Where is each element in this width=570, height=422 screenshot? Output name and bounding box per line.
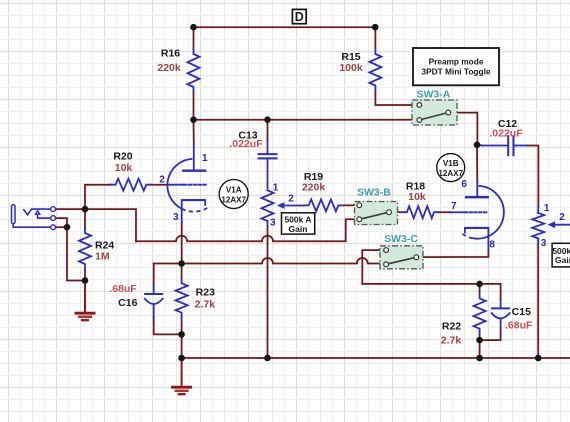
hop W4 over pot1 <box>262 236 273 242</box>
ground at input <box>84 281 86 314</box>
svg-text:D: D <box>295 10 304 24</box>
wire cathode bus W5 seg1 <box>154 263 262 265</box>
svg-text:.022uF: .022uF <box>489 128 523 140</box>
svg-text:.022uF: .022uF <box>229 138 263 150</box>
junction node 8 <box>178 260 185 267</box>
svg-text:8: 8 <box>489 240 495 251</box>
wire R22 bottom lead <box>479 334 481 358</box>
junction node 1 <box>190 24 197 31</box>
resistor R22 <box>474 293 486 333</box>
wire SW3-A pole to node C12 <box>451 113 478 145</box>
resistor R20 <box>111 179 152 191</box>
svg-text:Gain: Gain <box>555 255 570 265</box>
wire jack sleeve <box>56 226 67 228</box>
wire R16 bottom lead <box>193 92 195 120</box>
hop W5 over SW3-C riser <box>357 258 368 264</box>
capacitor C12 <box>482 145 508 147</box>
svg-text:SW3-C: SW3-C <box>384 233 418 245</box>
svg-text:2: 2 <box>559 212 565 223</box>
svg-text:2.7k: 2.7k <box>195 299 216 311</box>
resistor R19 <box>304 199 344 211</box>
wire R15 to SW3-A <box>375 91 416 106</box>
svg-text:C16: C16 <box>118 297 137 309</box>
V1B grid <box>451 211 465 213</box>
svg-text:10k: 10k <box>115 162 133 174</box>
svg-text:2: 2 <box>288 194 294 205</box>
resistor R18 <box>402 206 439 218</box>
hop W4 over cathode <box>176 236 187 242</box>
svg-text:V1A: V1A <box>226 185 242 194</box>
junction node 4 <box>264 116 271 123</box>
wire V1B plate lead <box>476 145 478 182</box>
junction node 9 <box>178 331 185 338</box>
wire C12 right to pot2 <box>527 146 538 208</box>
wire V1A cathode lead <box>181 223 183 264</box>
capacitor C16 <box>144 293 163 295</box>
wire C13 top lead <box>267 120 269 140</box>
wire R22 top lead <box>479 284 481 294</box>
switch SW3-A <box>412 100 457 125</box>
resistor R23 <box>176 278 188 317</box>
wire R23 top lead <box>181 264 183 279</box>
wire V1B cathode to SW3-C <box>419 250 489 257</box>
V1A grid <box>167 184 184 186</box>
switch SW3-B <box>355 202 398 225</box>
svg-text:R20: R20 <box>113 151 132 163</box>
wire R15 top lead <box>374 27 376 49</box>
wire R20 left lead <box>85 185 111 209</box>
wire pot1 bottom lead <box>267 226 269 358</box>
svg-text:10k: 10k <box>408 191 426 203</box>
svg-text:2.7k: 2.7k <box>441 335 462 347</box>
junction node 7 <box>82 277 89 284</box>
junction node 11 <box>264 355 271 362</box>
svg-text:3: 3 <box>173 212 179 223</box>
wire sleeve to ground node <box>67 227 85 280</box>
junction node 3 <box>190 116 197 123</box>
junction node 13 <box>476 281 483 288</box>
wire C12 left lead <box>477 144 482 147</box>
svg-text:220k: 220k <box>302 181 326 193</box>
wire SW3-C throw riser <box>362 250 383 284</box>
svg-text:1: 1 <box>202 153 208 164</box>
svg-text:3: 3 <box>541 238 547 249</box>
svg-text:3: 3 <box>270 217 276 228</box>
V1A designator circle <box>219 180 248 209</box>
wire R19 to SW3-B <box>343 204 356 206</box>
resistor R24 <box>79 228 91 269</box>
svg-text:6: 6 <box>461 179 467 190</box>
wire V1A plate lead <box>193 120 195 145</box>
wire jack ring to sleeve <box>56 218 67 227</box>
svg-text:V1B: V1B <box>443 159 459 168</box>
net label D <box>292 9 306 23</box>
capacitor C15 <box>491 307 510 309</box>
svg-text:1: 1 <box>544 203 550 214</box>
V1B plate <box>465 196 489 198</box>
V1B cathode <box>465 227 489 229</box>
V1A cathode <box>182 199 206 201</box>
svg-text:SW3-B: SW3-B <box>357 187 391 199</box>
svg-text:3PDT Mini Toggle: 3PDT Mini Toggle <box>422 67 491 77</box>
wire R16 top lead <box>193 27 195 49</box>
switch SW3-C <box>380 246 423 269</box>
capacitor C13 <box>267 140 269 154</box>
junction node 15 <box>476 355 483 362</box>
wire cathode bus W5 seg2 <box>273 263 357 265</box>
wire C16 bottom lead <box>154 317 182 334</box>
junction node 14 <box>476 337 483 344</box>
potentiometer 500k A Gain <box>262 190 274 221</box>
wire R20 to V1A grid <box>151 184 167 186</box>
junction node 16 <box>535 355 542 362</box>
potentiometer 500k Gain <box>532 213 544 238</box>
label box 500k A Gain <box>282 213 315 234</box>
V1A plate <box>182 170 206 172</box>
junction node 5 <box>82 206 89 213</box>
label box 500k Gain <box>552 243 570 267</box>
junction node 10 <box>178 355 185 362</box>
resistor R15 <box>369 49 381 91</box>
wire plate bus W2 <box>194 119 417 121</box>
svg-text:1: 1 <box>273 183 279 194</box>
V1B envelope dashed <box>461 233 473 238</box>
wire R23 bottom lead <box>181 318 183 358</box>
svg-text:7: 7 <box>451 201 457 212</box>
svg-text:R23: R23 <box>196 286 215 298</box>
wire input tip to grid node <box>56 209 136 241</box>
wire C15 bottom lead <box>480 327 501 340</box>
wire SW3-B pole to R18 <box>392 211 402 213</box>
svg-text:.68uF: .68uF <box>109 283 137 295</box>
wire R24 top lead <box>84 209 86 228</box>
svg-text:220k: 220k <box>157 62 181 74</box>
junction node 2 <box>372 24 379 31</box>
svg-text:12AX7: 12AX7 <box>221 196 246 205</box>
svg-text:Preamp mode: Preamp mode <box>429 56 484 66</box>
V1A envelope dashed <box>182 208 208 212</box>
V1B designator circle <box>437 154 465 182</box>
op-amp V1B triode envelope <box>473 186 504 239</box>
wire R24 bottom lead <box>84 269 86 281</box>
svg-text:SW3-A: SW3-A <box>416 89 450 101</box>
note box Preamp mode <box>413 48 499 85</box>
wire cathode bus W5 seg3 <box>368 263 384 265</box>
svg-text:2: 2 <box>159 175 165 186</box>
input jack J1 <box>12 205 16 224</box>
op-amp V1A triode envelope <box>167 159 192 209</box>
svg-text:R22: R22 <box>442 321 461 333</box>
wire R18 to V1B grid <box>439 211 451 213</box>
wire C16 top lead <box>153 264 155 285</box>
svg-text:12AX7: 12AX7 <box>438 169 463 178</box>
wire pot1 wiper to R19 <box>299 205 304 207</box>
svg-text:.68uF: .68uF <box>505 320 533 332</box>
svg-text:C15: C15 <box>512 306 531 318</box>
svg-text:Gain: Gain <box>289 224 308 234</box>
wire bypass W4 seg3 <box>273 219 357 241</box>
junction node 12 <box>474 142 481 149</box>
resistor R16 <box>188 49 200 92</box>
wire bypass W4 seg1 <box>136 240 176 242</box>
junction node 6 <box>64 224 71 231</box>
svg-text:100k: 100k <box>339 62 363 74</box>
svg-text:R16: R16 <box>161 47 180 59</box>
wire bypass W4 seg2 <box>187 240 262 242</box>
hop W5 over pot1 <box>262 258 273 264</box>
wire top bus D <box>194 26 376 28</box>
wire bus W6 to R22 C15 <box>362 284 500 300</box>
svg-text:1M: 1M <box>95 251 110 263</box>
ground at cathode bus <box>181 358 183 387</box>
wire pot2 bottom lead <box>537 244 539 358</box>
wire ground bus W7 <box>182 357 570 359</box>
